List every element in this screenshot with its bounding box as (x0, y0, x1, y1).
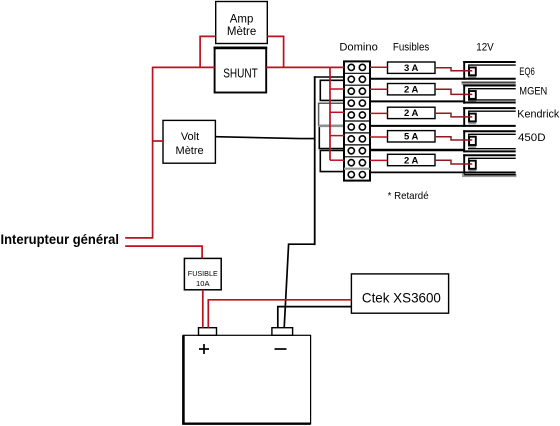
svg-text:450D: 450D (518, 132, 546, 144)
svg-text:5 A: 5 A (404, 132, 419, 143)
svg-text:SHUNT: SHUNT (223, 66, 258, 80)
svg-text:* Retardé: * Retardé (388, 190, 429, 202)
svg-text:EQ6: EQ6 (519, 66, 535, 78)
svg-text:12V: 12V (476, 42, 494, 54)
svg-text:2 A: 2 A (404, 85, 419, 96)
svg-text:2 A: 2 A (404, 155, 419, 166)
svg-text:Domino: Domino (339, 42, 378, 54)
svg-text:Mètre: Mètre (227, 26, 256, 38)
svg-text:FUSIBLE: FUSIBLE (188, 271, 218, 278)
svg-text:Kendrick: Kendrick (517, 109, 559, 121)
svg-text:MGEN: MGEN (519, 85, 547, 97)
svg-text:Mètre: Mètre (176, 145, 204, 157)
svg-text:Volt: Volt (181, 131, 199, 143)
svg-text:Interupteur général: Interupteur général (1, 232, 120, 247)
svg-text:Amp: Amp (230, 13, 254, 25)
svg-text:Ctek XS3600: Ctek XS3600 (362, 290, 441, 306)
svg-text:Fusibles: Fusibles (393, 42, 430, 54)
svg-text:3 A: 3 A (404, 63, 419, 74)
svg-text:10A: 10A (196, 281, 210, 288)
svg-text:2 A: 2 A (404, 108, 419, 119)
